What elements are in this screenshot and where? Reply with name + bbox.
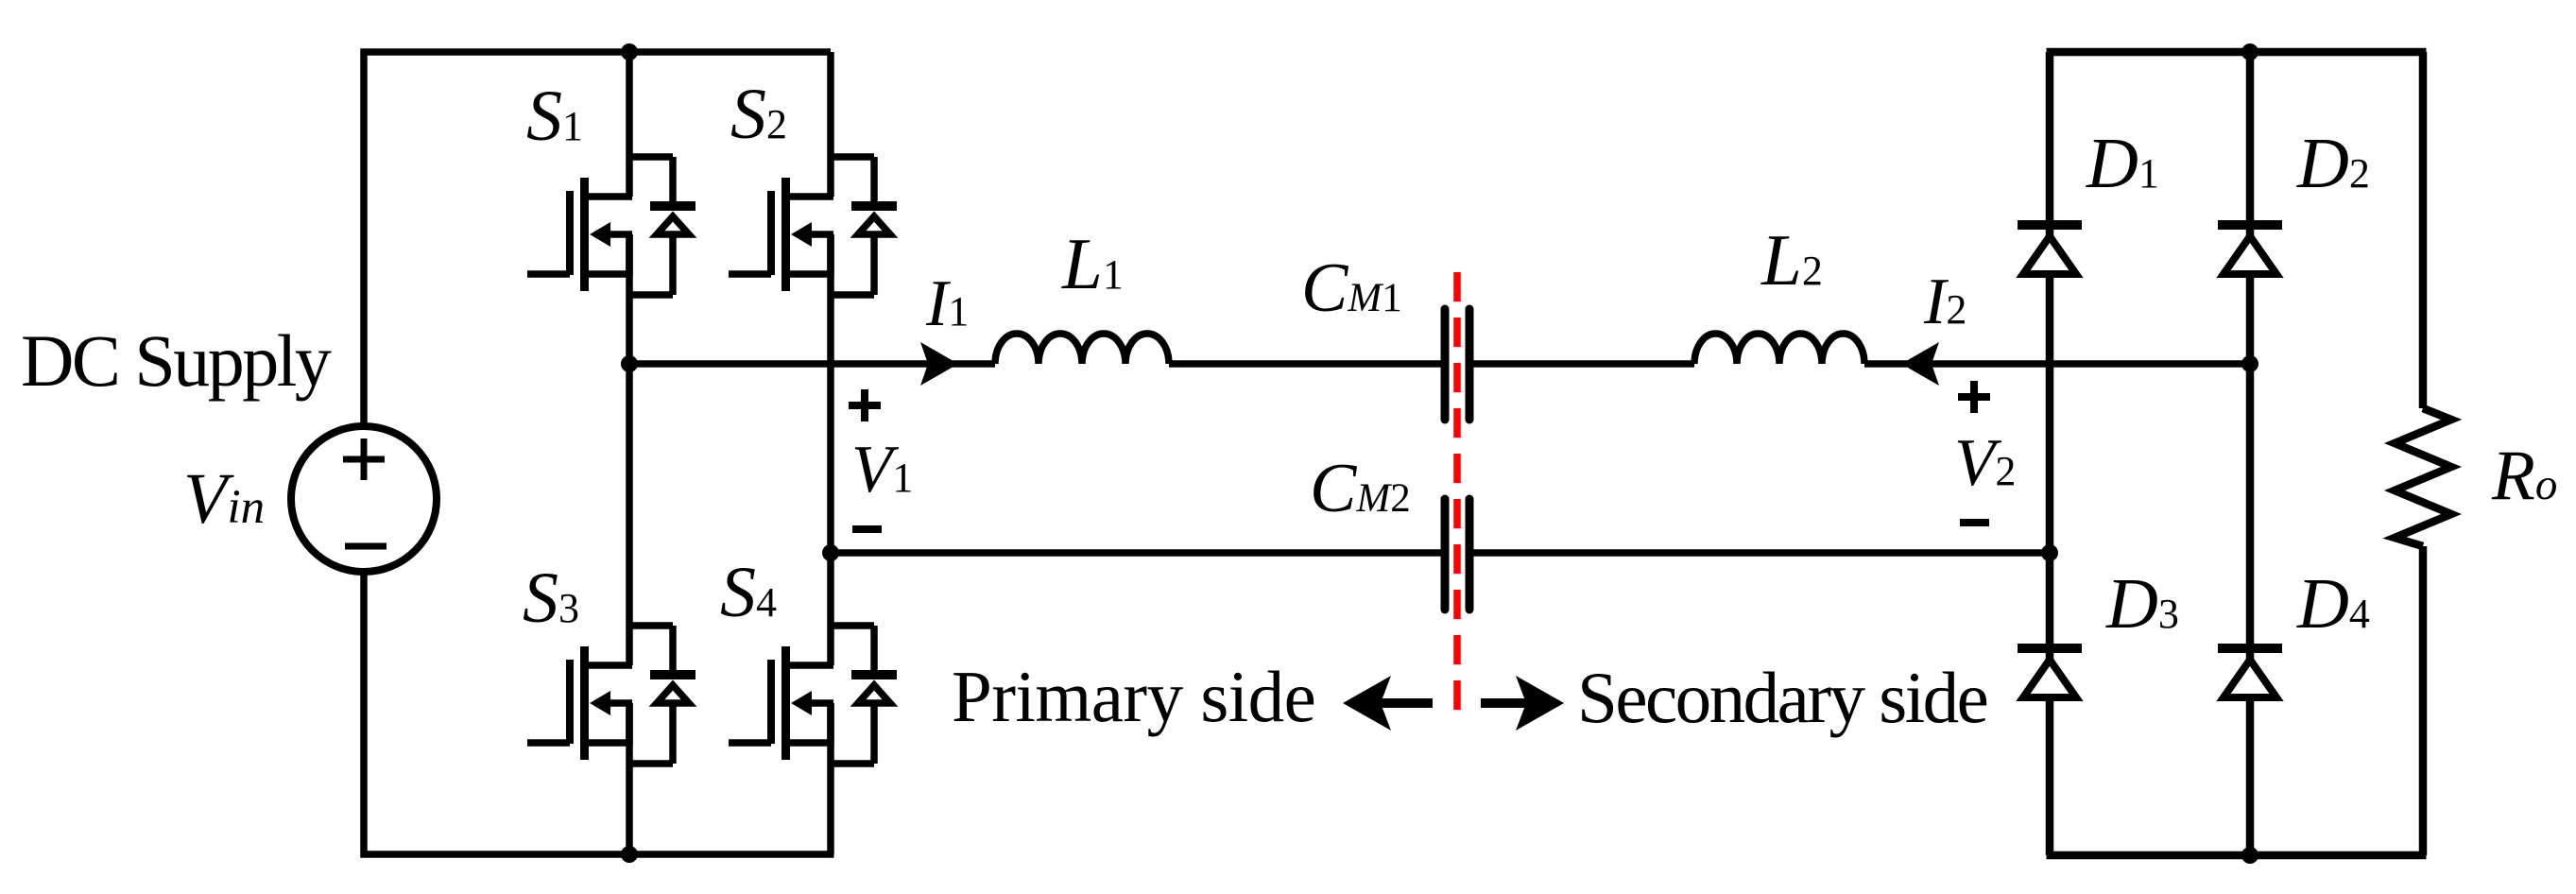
svg-text:S4: S4 <box>720 553 777 632</box>
svg-text:S3: S3 <box>523 559 579 638</box>
node: bottom rail / D4 leg junction <box>2241 847 2258 864</box>
svg-text:I2: I2 <box>1923 266 1966 338</box>
wire: CM2 to D1/D3 leg (V2-) <box>1472 549 2050 557</box>
wire: CM1 to L2 <box>1472 360 1694 368</box>
svg-text:D1: D1 <box>2086 124 2159 203</box>
svg-text:CM2: CM2 <box>1310 450 1411 527</box>
capacitor CM1 <box>1445 309 1469 420</box>
voltage source Vin <box>291 426 437 572</box>
node: top wire / D2 leg junction (V2+) <box>2241 355 2258 372</box>
svg-text:Vin: Vin <box>183 459 265 539</box>
transistor S2 <box>729 157 897 295</box>
svg-text:Ro: Ro <box>2491 437 2557 515</box>
svg-text:L1: L1 <box>1061 223 1124 304</box>
wire: bus B middle segment (S2 source to S4 drain) <box>827 234 834 665</box>
node: bottom wire / D1 leg junction (V2-) <box>2041 544 2058 561</box>
red dashed barrier line <box>1453 272 1461 725</box>
svg-text:V2: V2 <box>1954 426 2016 500</box>
inductor L1 <box>995 334 1169 364</box>
svg-text:Secondary side: Secondary side <box>1577 657 1987 738</box>
resistor Ro <box>2395 408 2451 546</box>
wire: D2/D4 leg <box>2246 52 2255 855</box>
node: bottom rail / bus A junction <box>621 846 638 863</box>
svg-text:V1: V1 <box>851 433 913 507</box>
diode D2 <box>2218 225 2282 274</box>
wire: V1- output wire (bus B midpoint to CM2) <box>831 549 1442 557</box>
arrow I2 current direction <box>1901 342 1939 386</box>
wire: L2 to D2/D4 leg (V2+) <box>1864 360 2250 368</box>
node: bus A midpoint (V1+) <box>621 355 638 372</box>
minus sign V2 <box>1960 519 1989 526</box>
svg-text:S2: S2 <box>730 75 787 154</box>
wire: D1/D3 leg <box>2046 52 2054 855</box>
transistor S3 <box>527 626 696 764</box>
arrow I1 current direction <box>920 342 958 386</box>
diode D4 <box>2218 648 2282 697</box>
svg-text:Primary side: Primary side <box>952 656 1315 737</box>
diode D1 <box>2018 225 2082 274</box>
wire: top rail left (Vin+ to S2 drain) <box>361 48 832 56</box>
svg-text:L2: L2 <box>1760 219 1823 301</box>
node: top rail / bus A junction <box>621 43 638 60</box>
transistor S1 <box>527 157 696 295</box>
wire: V1+ output wire (bus A midpoint to L1) <box>629 360 995 368</box>
wire: Ro branch upper <box>2419 52 2428 408</box>
inductor L2 <box>1694 334 1864 364</box>
svg-text:D4: D4 <box>2296 564 2370 644</box>
transistor S4 <box>729 626 897 764</box>
wire: L1 to CM1 <box>1169 360 1442 368</box>
wire: bus B lower segment (S4 source to bottom rail) <box>827 703 834 854</box>
node: top rail / D2 leg junction <box>2241 43 2258 60</box>
arrow: primary side pointer <box>1343 676 1433 731</box>
wire: left supply wire lower <box>360 573 368 858</box>
plus sign V1 <box>849 389 881 421</box>
capacitor CM2 <box>1445 499 1469 610</box>
wire: bus A middle segment (S1 source to S3 drain) <box>626 234 633 665</box>
wire: bottom rail right <box>2047 851 2427 860</box>
node: bus B midpoint (V1-) <box>822 544 839 561</box>
svg-text:D3: D3 <box>2105 564 2179 644</box>
minus sign V1 <box>852 525 882 533</box>
wire: bus B upper segment (S2 drain) <box>827 52 834 197</box>
svg-text:D2: D2 <box>2296 124 2370 203</box>
svg-text:DC Supply: DC Supply <box>21 319 332 402</box>
wire: top rail right <box>2047 48 2427 57</box>
diode D3 <box>2018 648 2082 697</box>
wire: bus A lower segment (S3 source to bottom rail) <box>626 703 633 854</box>
wire: bus A upper segment (S1 drain) <box>626 52 633 197</box>
svg-text:S1: S1 <box>526 77 583 156</box>
svg-text:CM1: CM1 <box>1301 249 1402 327</box>
wire: left supply wire upper <box>360 49 368 431</box>
wire: Ro branch lower <box>2419 546 2428 855</box>
wire: bottom rail left <box>361 851 834 858</box>
arrow: secondary side pointer <box>1481 676 1564 731</box>
plus sign V2 <box>1958 381 1990 413</box>
svg-text:I1: I1 <box>925 267 969 340</box>
